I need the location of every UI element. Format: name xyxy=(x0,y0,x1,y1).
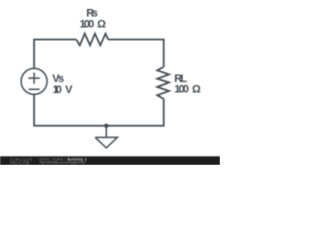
svg-text:100: 100 xyxy=(174,84,189,96)
svg-text:LAB: LAB xyxy=(19,161,30,165)
svg-text:Rs: Rs xyxy=(86,7,98,19)
svg-text:Ω: Ω xyxy=(97,19,106,31)
svg-text:Ω: Ω xyxy=(192,84,201,96)
svg-text:http://circuitlab.com/c/e6qbjj: http://circuitlab.com/c/e6qbjjh4rv9j4 xyxy=(40,160,86,164)
svg-text:100: 100 xyxy=(80,19,95,31)
svg-text:V: V xyxy=(65,84,73,96)
svg-text:10: 10 xyxy=(53,84,62,96)
